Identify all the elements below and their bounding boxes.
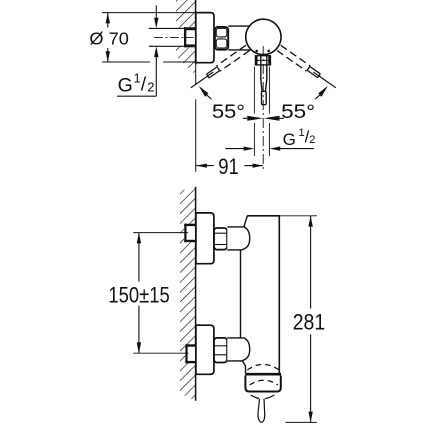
svg-text:G: G	[283, 130, 296, 149]
wall hatch (top view)	[176, 0, 196, 75]
upper wall flange (front view)	[196, 213, 214, 264]
dashed handle swung left 55°	[277, 45, 338, 90]
handle collar (top view)	[255, 56, 271, 65]
label 150±15	[108, 283, 169, 308]
dimension 91	[196, 154, 263, 179]
upper concealed socket (front view)	[184, 224, 195, 243]
label 55° left	[212, 101, 245, 123]
shower outlet housing	[245, 376, 280, 392]
svg-text:55°: 55°	[281, 101, 315, 123]
funnel below outlet	[251, 395, 275, 399]
wall hatch (front view)	[180, 186, 196, 400]
upper union nut (front view)	[214, 228, 227, 250]
dimension 281 extension lines	[280, 216, 317, 423]
svg-text:281: 281	[293, 310, 326, 335]
screw dots on body	[255, 50, 270, 53]
valve body circle (top view)	[246, 19, 281, 54]
label G1/2 (bottom outlet)	[283, 127, 316, 149]
svg-text:91: 91	[218, 154, 239, 179]
concealed socket fitting (top view)	[184, 27, 196, 47]
faucet body (front view)	[241, 216, 280, 373]
svg-text:2: 2	[309, 134, 315, 146]
svg-text:G: G	[118, 74, 133, 96]
pipe centerline (top view)	[154, 36, 194, 38]
supply pipe in wall (top view)	[149, 28, 185, 46]
label 281	[293, 310, 326, 335]
wall flange / escutcheon (top view)	[196, 13, 214, 63]
lower ball joint	[227, 338, 249, 373]
svg-text:55°: 55°	[212, 101, 245, 123]
lower concealed socket (front view)	[185, 344, 195, 363]
extension lines below handle (G1/2 outlet)	[254, 67, 269, 157]
thick joint line body/outlet	[245, 373, 281, 376]
lower union nut (front view)	[214, 338, 227, 363]
svg-text:Ø 70: Ø 70	[89, 28, 129, 48]
wall surface line (front view)	[195, 187, 197, 401]
wall surface line (top view)	[195, 0, 197, 65]
G1/2 top label arrows (supply thread)	[117, 6, 159, 97]
lower wall flange (front view)	[196, 325, 214, 374]
label 55° right	[281, 101, 315, 123]
dimension Ø70 extension lines	[102, 13, 196, 62]
handle lever shaft (top view)	[261, 56, 267, 105]
dimension 150±15 extension lines	[133, 233, 188, 354]
dimension 281 line and arrows	[308, 216, 312, 423]
connector tube to valve body (top view)	[228, 26, 251, 50]
label Ø70	[89, 28, 129, 48]
water drop at outlet	[258, 399, 265, 423]
hidden dome dashed arc (outlet)	[250, 380, 278, 385]
upper ball joint	[227, 216, 249, 250]
label G1/2 (supply)	[118, 71, 155, 97]
union hex nut (top view)	[215, 27, 228, 50]
svg-text:150±15: 150±15	[108, 283, 169, 308]
wall surface extension line down to 91 dimension	[195, 65, 197, 172]
hidden dome dashed arc (body bottom)	[247, 364, 279, 370]
arrow pointing at right handle position	[315, 86, 328, 99]
dimension 150±15 line and arrows	[137, 233, 141, 354]
bowtie arrows at vertical reference	[243, 116, 284, 121]
arrow pointing at left handle position	[199, 86, 212, 99]
svg-text:2: 2	[147, 79, 154, 94]
dimension Ø70 line and arrows	[106, 13, 110, 62]
dashed handle swung right 55°	[189, 45, 250, 90]
dimension G1/2 bottom outlet arrows	[225, 147, 314, 151]
svg-text:/: /	[141, 74, 147, 96]
svg-text:1: 1	[134, 71, 141, 86]
handle centerline (vertical)	[262, 46, 264, 172]
